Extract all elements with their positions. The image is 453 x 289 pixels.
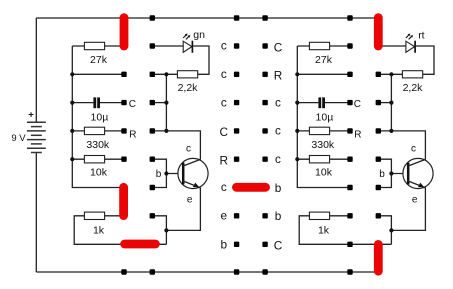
wire left rail vertical bbox=[72, 46, 124, 188]
svg-text:c: c bbox=[221, 67, 227, 81]
svg-text:c: c bbox=[186, 143, 191, 154]
svg-text:e: e bbox=[412, 194, 418, 205]
LED arrow bbox=[183, 35, 186, 38]
resistor 1k left bbox=[74, 216, 166, 245]
solder pads bbox=[121, 15, 126, 20]
bottom rail bbox=[36, 271, 378, 273]
resistor 10k right bbox=[297, 158, 349, 160]
svg-text:e: e bbox=[187, 194, 193, 205]
svg-text:c: c bbox=[221, 95, 227, 109]
svg-text:27k: 27k bbox=[90, 54, 108, 66]
svg-text:2,2k: 2,2k bbox=[403, 82, 424, 94]
LED arrow bbox=[409, 37, 412, 40]
svg-text:C: C bbox=[354, 99, 361, 110]
svg-text:1k: 1k bbox=[318, 224, 330, 236]
base loop left bbox=[152, 159, 166, 187]
wire row2 left bbox=[72, 73, 124, 75]
inner vertical rows2-4 right bbox=[390, 74, 392, 131]
top rail bbox=[36, 17, 378, 19]
capacitor 10u right bbox=[297, 102, 349, 104]
svg-text:C: C bbox=[274, 239, 283, 253]
svg-text:10µ: 10µ bbox=[316, 112, 334, 124]
wire row2 right bbox=[297, 73, 349, 75]
svg-text:C: C bbox=[274, 40, 283, 54]
emitter wiring left bbox=[152, 216, 166, 245]
svg-text:b: b bbox=[275, 181, 282, 195]
wire row3 inner left bbox=[152, 102, 166, 104]
svg-text:10µ: 10µ bbox=[91, 112, 109, 124]
LED left bbox=[152, 46, 209, 74]
jumper red bottom-right bbox=[374, 244, 383, 271]
svg-text:b: b bbox=[275, 209, 282, 223]
resistor 1k right bbox=[299, 216, 391, 245]
resistor 330k right bbox=[297, 130, 349, 132]
wire right rail vertical bbox=[297, 46, 349, 188]
junction dots left bbox=[70, 72, 74, 76]
transistor left bbox=[178, 158, 208, 188]
svg-text:+: + bbox=[28, 109, 34, 120]
svg-text:27k: 27k bbox=[315, 54, 333, 66]
LED arrow bbox=[406, 35, 409, 38]
jumper red top-left bbox=[120, 18, 129, 46]
resistor 27k left bbox=[72, 45, 124, 47]
svg-text:330k: 330k bbox=[86, 139, 110, 151]
svg-text:9 V: 9 V bbox=[11, 133, 26, 144]
svg-text:b: b bbox=[156, 169, 162, 180]
emitter wiring right bbox=[377, 216, 391, 245]
svg-text:R: R bbox=[220, 154, 229, 168]
resistor 2,2k left bbox=[152, 73, 177, 75]
wire row4 to collector right bbox=[377, 131, 425, 160]
svg-text:c: c bbox=[275, 124, 281, 138]
resistor 27k right bbox=[297, 45, 349, 47]
svg-text:10k: 10k bbox=[315, 166, 333, 178]
svg-text:c: c bbox=[275, 152, 281, 166]
transistor right bbox=[403, 158, 433, 188]
svg-text:rt: rt bbox=[418, 29, 424, 41]
svg-text:2,2k: 2,2k bbox=[178, 82, 199, 94]
svg-text:1k: 1k bbox=[93, 224, 105, 236]
base loop right bbox=[377, 159, 391, 187]
svg-text:c: c bbox=[411, 143, 416, 154]
junction dots right bbox=[295, 72, 299, 76]
svg-text:R: R bbox=[354, 130, 361, 141]
resistor 2,2k right bbox=[377, 73, 402, 75]
wire row4 to collector left bbox=[152, 131, 200, 160]
svg-text:gn: gn bbox=[193, 29, 205, 41]
svg-text:b: b bbox=[221, 238, 228, 252]
LED right bbox=[377, 46, 434, 74]
battery 9V bbox=[35, 18, 37, 272]
svg-text:C: C bbox=[220, 125, 229, 139]
resistor 10k left bbox=[72, 158, 124, 160]
svg-text:b: b bbox=[379, 169, 385, 180]
svg-text:c: c bbox=[275, 95, 281, 109]
svg-text:10k: 10k bbox=[90, 166, 108, 178]
LED arrow bbox=[186, 37, 189, 40]
jumper red bottom-left horizontal bbox=[125, 240, 156, 249]
svg-text:R: R bbox=[274, 69, 283, 83]
svg-text:C: C bbox=[129, 99, 136, 110]
jumper red mid-left vertical bbox=[119, 187, 128, 215]
jumper red middle horizontal bbox=[236, 183, 265, 192]
capacitor 10u left bbox=[72, 102, 124, 104]
resistor 330k left bbox=[72, 130, 124, 132]
inner vertical rows2-4 left bbox=[165, 74, 167, 131]
wire row3 inner right bbox=[377, 102, 391, 104]
svg-text:e: e bbox=[221, 209, 228, 223]
jumper red top-right bbox=[374, 18, 383, 46]
svg-text:R: R bbox=[129, 130, 136, 141]
svg-text:330k: 330k bbox=[311, 139, 335, 151]
svg-text:c: c bbox=[221, 39, 227, 53]
svg-text:c: c bbox=[221, 180, 227, 194]
